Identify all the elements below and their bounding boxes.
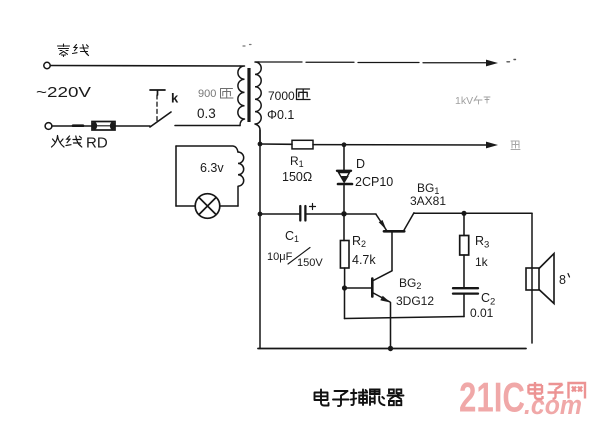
lamp wire bottom right: [220, 205, 238, 207]
resistor R3 wire top: [463, 213, 465, 235]
switch k blade: [150, 112, 171, 127]
BG1 emitter diagonal: [376, 214, 387, 230]
BG2 base bar: [371, 279, 374, 297]
svg-text:7000: 7000: [268, 89, 295, 103]
wire R3 to C2: [463, 255, 465, 287]
svg-text:R1: R1: [290, 154, 304, 169]
char 鼠: [370, 390, 385, 406]
BG1 emitter wire: [344, 213, 376, 215]
fuse RD: [92, 122, 115, 131]
svg-text:4.7k: 4.7k: [352, 253, 376, 267]
label 1kV faint: [455, 95, 490, 107]
BG1 base lead down: [391, 233, 393, 271]
lamp winding coil 6.3v: [238, 152, 244, 206]
BG2 emitter lead down: [390, 303, 392, 349]
label 匝 (of 7000匝): [297, 89, 311, 100]
svg-text:1kV: 1kV: [455, 95, 473, 107]
diode D wire bottom: [343, 186, 345, 215]
junction node at 260,144: [258, 142, 263, 147]
BG2 emitter diagonal: [373, 293, 390, 302]
wire C2 bottom: [463, 295, 465, 317]
svg-text:150V: 150V: [297, 257, 323, 269]
junction node at 344,214: [341, 211, 346, 216]
char 捕: [351, 390, 367, 406]
transistor BG2: [347, 271, 392, 349]
char 器: [388, 390, 404, 406]
char 子 (watermark): [548, 384, 564, 399]
wire secondary bottom vertical (left bus): [259, 130, 261, 349]
title 电子捕鼠器: [315, 390, 404, 407]
lamp loop left side: [175, 146, 177, 206]
arrow HV top: [486, 60, 498, 67]
capacitor C1: [300, 204, 315, 221]
wire R1 to arrow: [313, 144, 486, 146]
BG2 base wire: [347, 287, 372, 289]
diode D wire top: [343, 147, 345, 171]
svg-text:150Ω: 150Ω: [282, 170, 312, 184]
svg-text:R3: R3: [475, 234, 489, 251]
resistor R3: [460, 236, 469, 256]
svg-text:3DG12: 3DG12: [396, 294, 434, 308]
svg-text:Φ0.1: Φ0.1: [267, 108, 294, 122]
specks above transformer: [243, 45, 251, 47]
junction node R3 top: [461, 211, 466, 216]
BG2 emitter arrow: [380, 296, 390, 303]
speaker: [526, 254, 554, 304]
svg-text:3AX81: 3AX81: [410, 194, 446, 208]
svg-text:2CP10: 2CP10: [355, 175, 393, 189]
switch k bar: [150, 90, 165, 95]
wire live to fuse: [52, 125, 92, 127]
resistor R2 wire top: [343, 214, 345, 241]
wire to R1: [260, 143, 292, 145]
svg-text:C1: C1: [285, 229, 299, 244]
ground rail: [258, 348, 526, 350]
svg-text:0.3: 0.3: [197, 106, 216, 121]
BG1 collector diagonal: [404, 213, 414, 231]
wire feedback row: [345, 317, 465, 319]
wire neutral top: [51, 65, 241, 68]
char 电 (watermark): [529, 382, 543, 399]
wire C1 to node: [307, 213, 345, 215]
svg-text:0.01: 0.01: [470, 306, 494, 320]
transformer secondary coil: [255, 62, 261, 144]
BG1 base bar: [384, 230, 404, 233]
wire C1 row left: [260, 213, 299, 215]
label 900匝: [198, 88, 233, 100]
switch k linkage dashed: [156, 95, 158, 122]
label 10uF/150V: [267, 248, 323, 270]
char 网 (watermark): [569, 383, 586, 399]
junction node at 260,214: [258, 212, 263, 217]
transistor BG1: [344, 213, 414, 271]
label 火: [52, 136, 65, 148]
svg-text:900: 900: [198, 88, 216, 100]
svg-text:21IC: 21IC: [459, 374, 525, 421]
arrow output 2: [486, 142, 498, 149]
label 线 (of 零线): [73, 45, 89, 56]
transformer T primary coil: [238, 66, 245, 126]
wire collector rail: [414, 212, 532, 214]
svg-text:R2: R2: [352, 234, 366, 249]
svg-text:~220V: ~220V: [36, 85, 91, 101]
junction node base BG2: [342, 285, 347, 290]
label 零: [58, 44, 70, 57]
junction node diode top: [342, 142, 347, 147]
transformer core: [247, 68, 250, 122]
watermark 电子网: [529, 382, 586, 399]
svg-text:RD: RD: [86, 135, 108, 152]
terminal neutral (零线): [44, 62, 50, 68]
svg-text:8: 8: [559, 273, 566, 287]
resistor R1: [292, 140, 313, 149]
diode D symbol: [337, 171, 352, 184]
label 线 (of 火线): [66, 136, 82, 147]
terminal live (火线): [45, 123, 52, 130]
wire R2 bottom: [344, 268, 346, 288]
lamp wire bottom left: [176, 205, 195, 207]
lamp: [195, 194, 220, 219]
wire base node down: [344, 288, 346, 319]
svg-text:1k: 1k: [475, 255, 489, 269]
svg-text:10μF: 10μF: [267, 251, 293, 263]
faint char after arrow2: [511, 141, 520, 150]
svg-text:BG2: BG2: [399, 276, 421, 291]
wire fuse to switch: [115, 125, 150, 127]
wire speaker vertical: [531, 213, 533, 343]
char 电: [315, 390, 329, 406]
wire switch to transformer: [175, 125, 240, 127]
svg-text:6.3v: 6.3v: [200, 161, 224, 175]
speck after top arrow: [507, 60, 516, 62]
svg-text:k: k: [171, 91, 179, 106]
char 子: [333, 391, 349, 406]
BG2 collector diagonal: [373, 271, 392, 281]
resistor R2: [340, 241, 349, 269]
BG1 emitter arrow: [379, 220, 387, 230]
wire HV output top: [259, 61, 486, 64]
svg-text:D: D: [356, 157, 365, 171]
lamp winding loop top: [176, 146, 238, 152]
capacitor C2: [453, 288, 478, 293]
junction node emitter-ground: [388, 346, 393, 351]
